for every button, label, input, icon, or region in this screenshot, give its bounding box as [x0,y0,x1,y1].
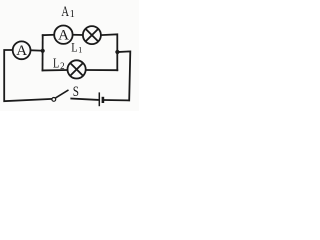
wire: left bus vertical [42,35,44,70]
svg-text:A: A [58,27,69,43]
wire: top branch left segment [43,34,54,36]
switch S lever [56,90,69,98]
node: right bus junction dot [115,50,119,54]
wire: ammeter A to left bus junction [30,49,42,51]
switch S pivot [52,98,56,102]
wire: top branch middle segment [73,34,83,36]
ammeter A (left) [13,41,31,59]
battery long plate [98,92,100,106]
lamp L2 [68,60,86,78]
wire: top branch right segment [101,34,117,70]
battery short plate [102,97,105,103]
svg-text:A: A [61,4,69,20]
svg-text:S: S [73,84,79,100]
svg-text:1: 1 [78,45,82,54]
svg-text:A: A [16,43,27,59]
svg-text:L: L [53,56,59,71]
wire: switch to battery segment [71,99,98,100]
wire: left edge with bottom run to switch [4,50,52,101]
svg-text:L: L [71,40,77,54]
lamp L1 [83,26,101,44]
wire: L2 branch left segment [43,69,68,71]
ammeter A1 [54,26,72,44]
wire: L2 branch right segment [86,69,117,71]
node: left bus junction dot [41,49,45,53]
svg-text:2: 2 [60,61,65,71]
wire: right tap to outer right edge [104,51,130,100]
svg-text:1: 1 [70,9,75,20]
